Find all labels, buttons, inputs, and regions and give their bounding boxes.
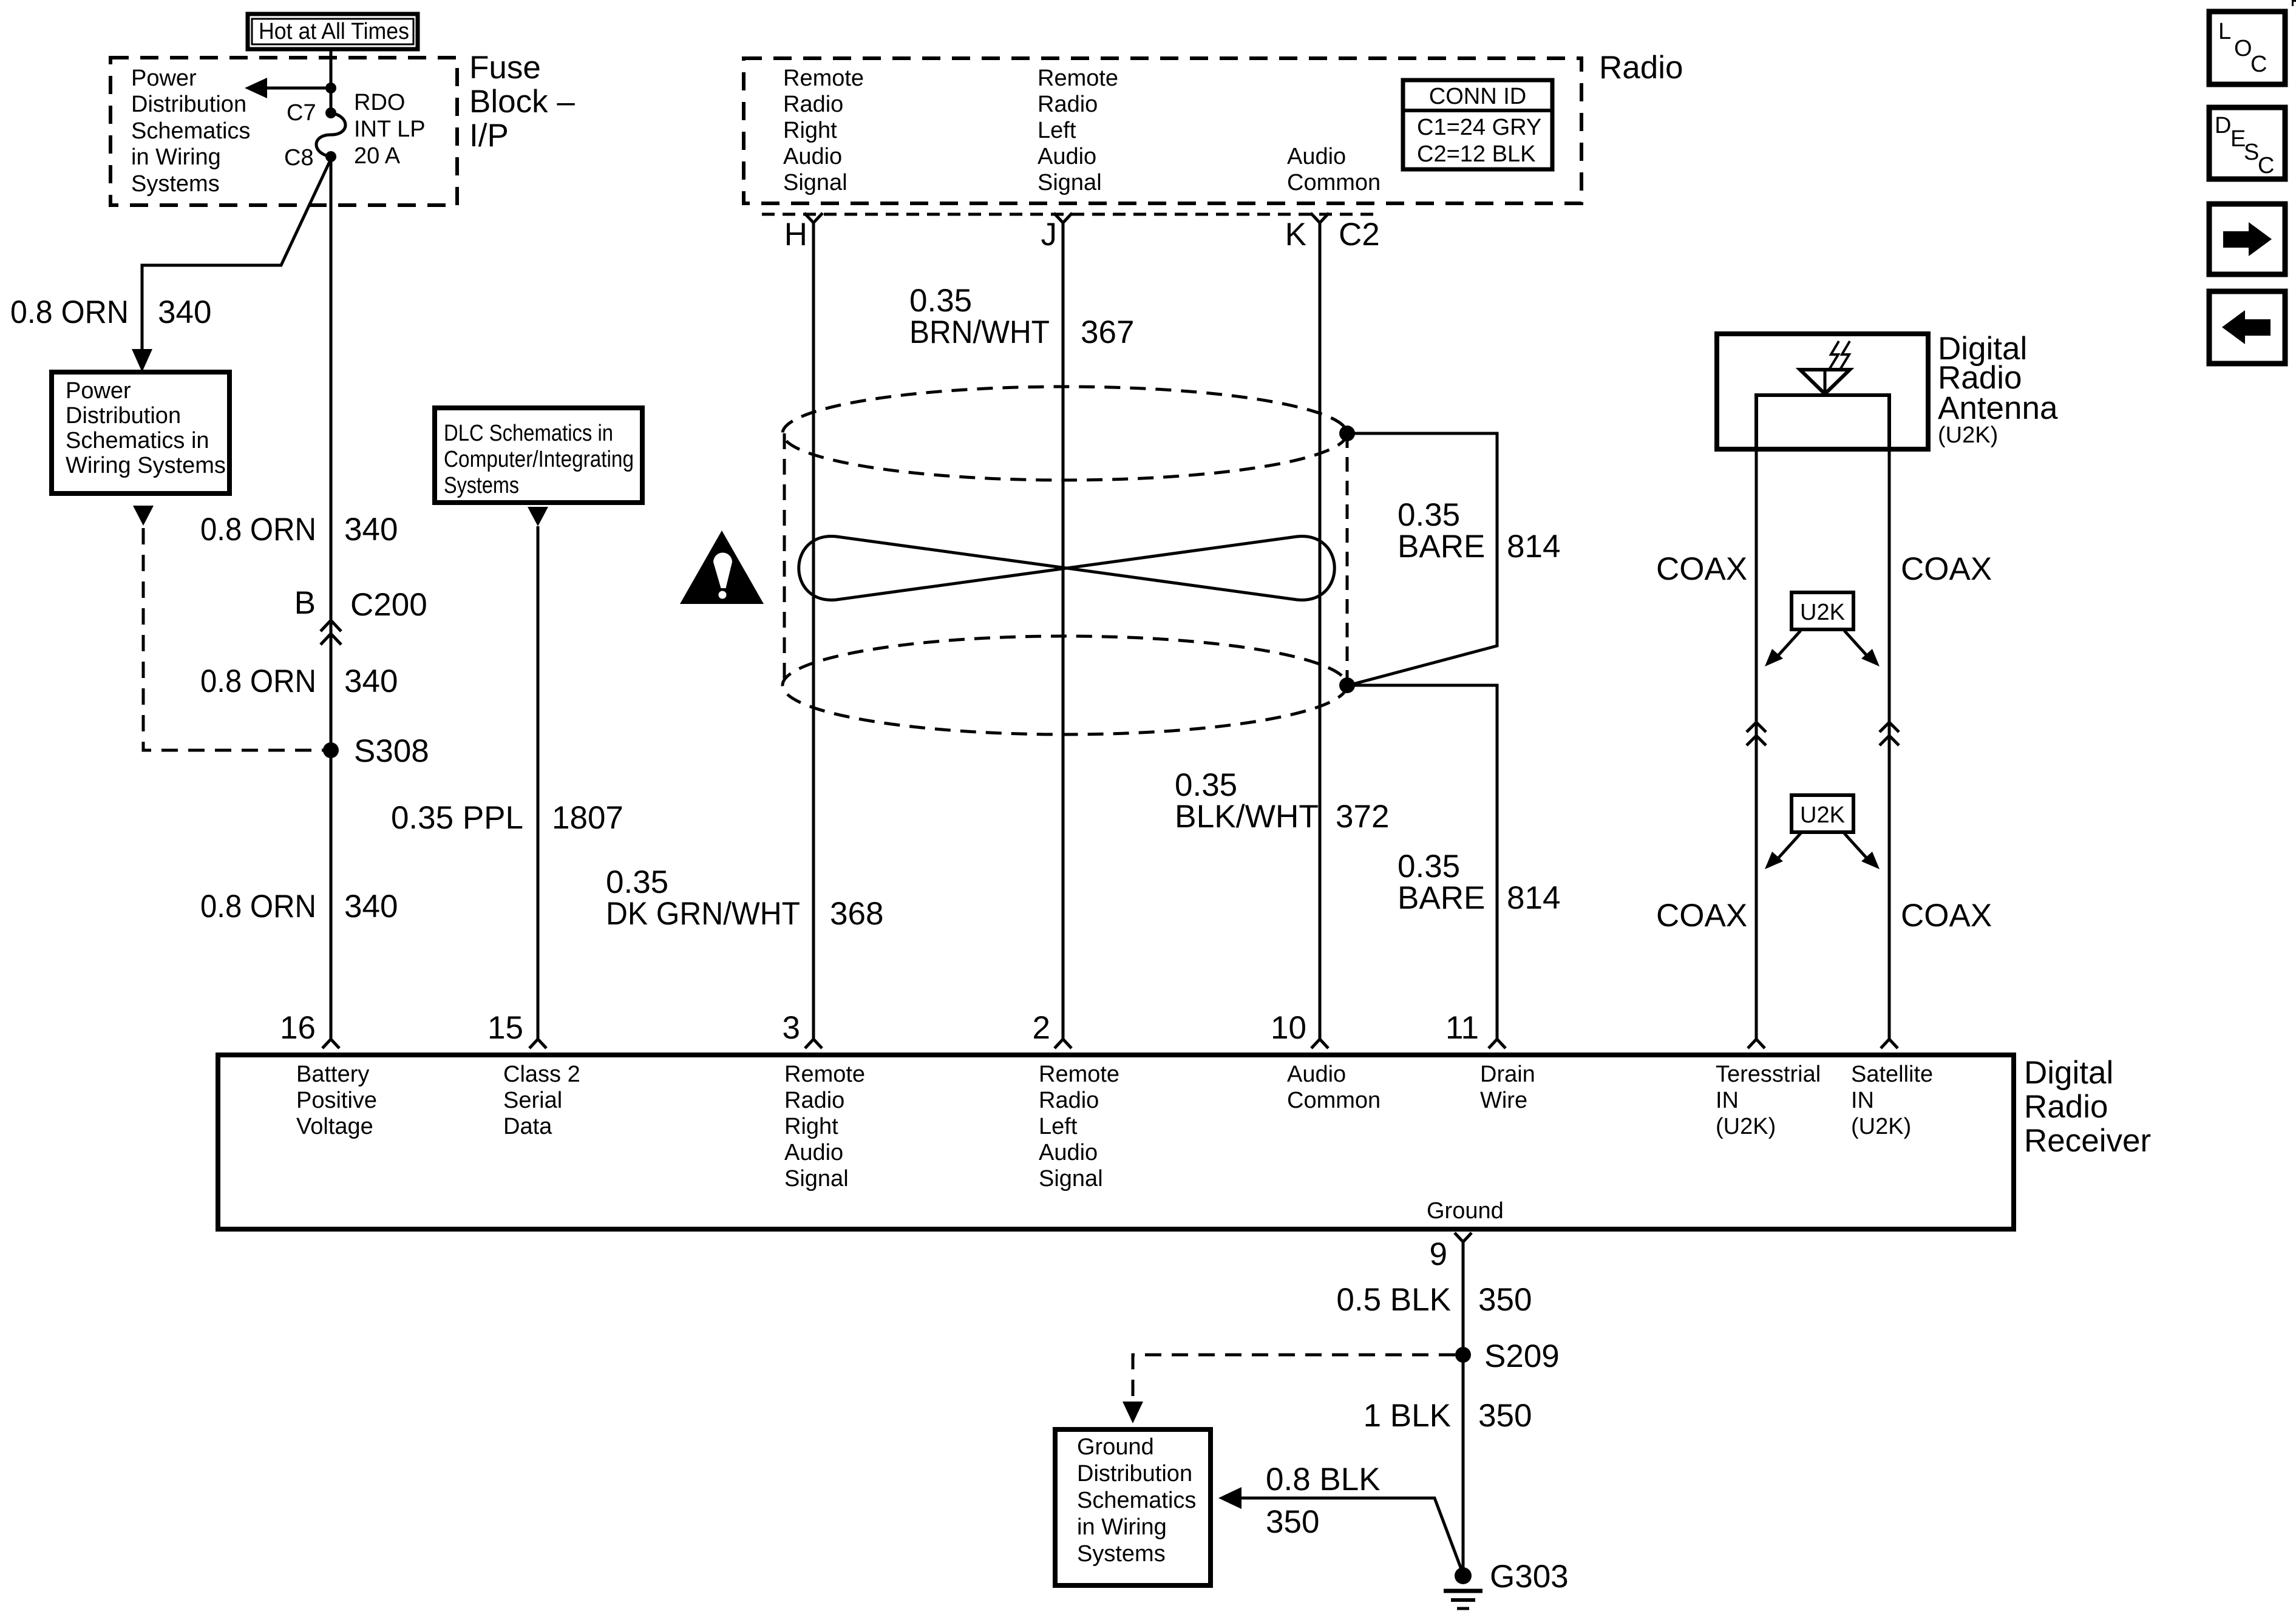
svg-text:Ground: Ground [1427,1198,1504,1224]
svg-text:Radio: Radio [784,1088,844,1113]
pin terrestrial [1748,1039,1765,1048]
svg-text:0.35: 0.35 [1398,849,1460,884]
wire label 0.8 BLK 350 [1266,1462,1381,1540]
svg-text:350: 350 [1478,1282,1532,1318]
svg-text:K: K [1285,217,1306,253]
svg-text:15: 15 [487,1010,523,1046]
twisted pair symbol [799,537,1335,600]
wire label 0.35 PPL 1807 [391,800,623,836]
wire label 0.35 BRN/WHT 367 [909,283,1134,350]
svg-text:814: 814 [1507,880,1560,916]
svg-text:Systems: Systems [444,473,519,498]
svg-text:S: S [2244,140,2259,165]
antenna inner housing [1756,395,1889,449]
svg-text:9: 9 [1430,1236,1447,1272]
svg-text:Teresstrial: Teresstrial [1716,1062,1821,1087]
svg-text:340: 340 [158,294,211,330]
wire label 0.35 BARE 814 (upper) [1398,497,1560,564]
svg-text:Signal: Signal [784,1166,849,1192]
antenna symbol [1800,341,1850,395]
svg-text:S308: S308 [354,733,429,769]
svg-text:Distribution: Distribution [1077,1461,1192,1486]
box: Ground Distribution Schematics in Wiring Systems [1055,1429,1211,1585]
label box: Hot at All Times [248,14,418,49]
svg-text:Satellite: Satellite [1851,1062,1933,1087]
receiver pin text: audio common [1287,1062,1381,1113]
coax break chevrons right [1880,722,1899,745]
svg-text:Remote: Remote [783,66,864,91]
wire label 0.35 BLK/WHT 372 [1175,767,1389,835]
svg-text:1 BLK: 1 BLK [1364,1398,1451,1434]
svg-text:Remote: Remote [784,1062,865,1087]
svg-text:D: D [2215,113,2231,138]
svg-text:U2K: U2K [1800,600,1845,625]
svg-text:Class 2: Class 2 [503,1062,580,1087]
svg-text:11: 11 [1445,1010,1479,1046]
svg-text:Antenna: Antenna [1938,390,2058,426]
radio pin text: remote radio right audio signal [783,66,864,195]
svg-text:1807: 1807 [552,800,623,836]
svg-text:Common: Common [1287,1088,1381,1113]
svg-text:INT LP: INT LP [354,117,426,142]
svg-text:Drain: Drain [1480,1062,1535,1087]
warning triangle [680,531,764,604]
svg-text:G303: G303 [1490,1559,1569,1595]
svg-text:Digital: Digital [2024,1055,2113,1091]
shield right dashed side [1346,433,1349,685]
fuse block dashed box [110,58,457,205]
svg-text:Left: Left [1039,1114,1078,1139]
svg-text:in Wiring: in Wiring [1077,1514,1167,1540]
nav box LOC [2209,12,2285,84]
U2K option box upper [1765,592,1880,666]
wire label 0.8 ORN 340 (top left) [10,294,211,330]
svg-text:J: J [1041,217,1058,253]
nav box arrow right [2209,204,2285,274]
svg-text:Radio: Radio [783,92,843,117]
svg-text:Battery: Battery [296,1062,369,1087]
box: Digital Radio Receiver [218,1055,2014,1229]
svg-text:340: 340 [344,889,398,924]
svg-text:0.35: 0.35 [1175,767,1237,803]
svg-text:350: 350 [1478,1398,1532,1434]
svg-text:Voltage: Voltage [296,1114,373,1139]
svg-text:C2: C2 [1339,217,1380,253]
receiver pin text: remote radio right audio signal [784,1062,865,1192]
wire H to pin 3 [812,223,815,1039]
svg-text:Signal: Signal [783,170,847,195]
pin 11 [1445,1010,1506,1048]
ground G303 [1444,1559,1569,1609]
arrow below power distribution box [133,506,154,526]
svg-text:Right: Right [784,1114,838,1139]
svg-text:in Wiring: in Wiring [131,144,221,170]
svg-text:0.35 PPL: 0.35 PPL [391,800,523,836]
svg-text:372: 372 [1336,799,1389,835]
label: Digital Radio Antenna (U2K) [1938,331,2058,448]
receiver pin text: remote radio left audio signal [1039,1062,1119,1192]
pin 9 [1430,1233,1472,1272]
shield top dashed ellipse [783,387,1347,480]
label: Digital Radio Receiver [2024,1055,2151,1159]
svg-text:B: B [294,585,316,621]
arrow below DLC box [528,507,548,526]
wire label 0.8 ORN 340 (upper) [200,512,398,547]
svg-text:C200: C200 [350,587,427,623]
svg-text:0.8 ORN: 0.8 ORN [10,294,129,330]
svg-text:0.35: 0.35 [606,864,668,900]
svg-text:0.35: 0.35 [909,283,972,319]
U2K option box lower [1765,795,1880,869]
svg-text:Fuse: Fuse [469,50,541,86]
svg-text:Signal: Signal [1038,170,1102,195]
svg-text:0.35: 0.35 [1398,497,1460,533]
wire: class 2 serial data to pin 15 [537,526,540,1039]
receiver pin text: terrestrial in [1716,1062,1821,1139]
svg-text:Remote: Remote [1039,1062,1119,1087]
svg-text:368: 368 [830,896,883,932]
wire 0.8 BLK 350 to G303 [1218,1487,1463,1574]
shield bottom dashed ellipse [783,636,1347,734]
svg-text:Common: Common [1287,170,1381,195]
wire label 1 BLK 350 [1364,1398,1532,1434]
svg-text:DLC Schematics in: DLC Schematics in [444,421,613,446]
svg-text:Distribution: Distribution [131,92,246,117]
page edge mark [2292,0,2296,6]
svg-text:BRN/WHT: BRN/WHT [909,314,1050,350]
svg-text:(U2K): (U2K) [1938,422,1998,448]
pin H [784,213,823,253]
drain wire upper loop [1347,433,1497,685]
wire from Hot at All Times down [330,49,333,112]
receiver pin text: drain wire [1480,1062,1535,1113]
svg-text:0.8 ORN: 0.8 ORN [200,889,316,924]
svg-text:CONN ID: CONN ID [1429,84,1526,109]
svg-text:Distribution: Distribution [66,403,181,429]
svg-text:COAX: COAX [1901,898,1992,934]
coax break chevrons left [1747,722,1766,745]
svg-text:C2=12 BLK: C2=12 BLK [1417,141,1535,167]
svg-text:Power: Power [66,378,131,404]
svg-text:Audio: Audio [784,1140,843,1165]
svg-text:Block –: Block – [469,84,575,120]
pin 15 [487,1010,546,1048]
radio pin text: audio common [1287,144,1381,195]
CONN ID table [1403,80,1552,169]
svg-text:I/P: I/P [469,118,509,154]
svg-text:BARE: BARE [1398,880,1485,916]
svg-text:Audio: Audio [1287,144,1346,169]
svg-text:Wire: Wire [1480,1088,1527,1113]
wire K to pin 10 [1319,223,1322,1039]
svg-text:C1=24 GRY: C1=24 GRY [1417,115,1541,140]
main wire from fuse C8 to pin 16 [330,157,333,1039]
svg-text:H: H [784,217,807,253]
svg-text:Radio: Radio [1599,50,1683,86]
wire label 0.35 BARE 814 (lower) [1398,849,1560,916]
svg-text:IN: IN [1851,1088,1874,1113]
svg-text:Power: Power [131,66,197,91]
svg-text:BLK/WHT: BLK/WHT [1175,799,1319,835]
wire label 0.35 DK GRN/WHT 368 [606,864,883,932]
svg-text:0.8 ORN: 0.8 ORN [200,512,316,547]
svg-text:U2K: U2K [1800,802,1845,828]
svg-text:RDO: RDO [354,90,405,115]
svg-text:367: 367 [1081,314,1134,350]
svg-text:3: 3 [783,1010,800,1046]
svg-text:IN: IN [1716,1088,1739,1113]
coax wire terrestrial [1755,449,1758,1039]
shield bottom tap node [1339,677,1355,693]
svg-text:20 A: 20 A [354,143,401,169]
junction node [325,83,336,93]
wire J to pin 2 [1062,223,1065,1039]
fuse block note text [131,66,250,197]
svg-text:340: 340 [344,663,398,699]
svg-text:C8: C8 [284,145,314,171]
pin satellite [1881,1039,1898,1048]
svg-text:Remote: Remote [1038,66,1118,91]
pin 16 [280,1010,339,1048]
nav box DESC [2209,107,2285,179]
svg-text:(U2K): (U2K) [1851,1114,1911,1139]
svg-text:COAX: COAX [1656,551,1747,587]
svg-text:Audio: Audio [783,144,842,169]
svg-text:Radio: Radio [1039,1088,1099,1113]
radio pin text: remote radio left audio signal [1038,66,1118,195]
wire label 0.8 ORN 340 (middle) [200,663,398,699]
svg-text:Schematics in: Schematics in [66,428,209,453]
svg-text:(U2K): (U2K) [1716,1114,1776,1139]
svg-text:350: 350 [1266,1504,1319,1540]
receiver pin text: satellite in [1851,1062,1933,1139]
svg-text:COAX: COAX [1656,898,1747,934]
svg-text:Computer/Integrating: Computer/Integrating [444,447,634,472]
svg-text:Signal: Signal [1039,1166,1103,1192]
shield left dashed side [783,433,786,685]
shield top tap node [1339,425,1355,441]
svg-text:Audio: Audio [1287,1062,1346,1087]
svg-text:0.8 BLK: 0.8 BLK [1266,1462,1381,1497]
svg-text:0.5 BLK: 0.5 BLK [1336,1282,1451,1318]
nav box arrow left [2209,291,2285,364]
pin 3 [783,1010,822,1048]
svg-text:10: 10 [1271,1010,1306,1046]
svg-text:C7: C7 [287,100,316,126]
box: Power Distribution Schematics in Wiring Systems [52,372,229,493]
svg-text:C: C [2258,153,2274,178]
svg-text:BARE: BARE [1398,529,1485,564]
svg-text:Schematics: Schematics [1077,1488,1196,1513]
svg-text:Right: Right [783,118,837,143]
fuse RDO INT LP 20 A [316,107,345,162]
arrow to Power Distribution text [245,78,331,98]
svg-text:S209: S209 [1484,1338,1560,1374]
dashed wire from S209 to ground distribution [1123,1355,1455,1423]
receiver pin text: battery positive voltage [296,1062,377,1139]
svg-text:Wiring Systems: Wiring Systems [66,453,226,478]
svg-text:Receiver: Receiver [2024,1123,2151,1159]
svg-text:Systems: Systems [1077,1541,1166,1567]
receiver pin text: class 2 serial data [503,1062,580,1139]
svg-text:L: L [2218,19,2231,44]
box: Digital Radio Antenna outer [1717,334,1928,449]
svg-text:340: 340 [344,512,398,547]
wire: branch from C8 to left arrow [132,159,331,372]
pin J [1041,213,1073,253]
dashed wire to S308 [143,528,328,750]
svg-text:Positive: Positive [296,1088,377,1113]
svg-text:C: C [2250,52,2267,77]
svg-text:Radio: Radio [2024,1089,2108,1125]
connector C200 pin B [294,585,427,645]
svg-text:Radio: Radio [1038,92,1098,117]
svg-text:O: O [2234,36,2252,61]
svg-text:Left: Left [1038,118,1076,143]
svg-text:Audio: Audio [1039,1140,1098,1165]
svg-text:Systems: Systems [131,171,220,197]
svg-text:Schematics: Schematics [131,118,250,144]
wire label 0.8 ORN 340 (lower) [200,889,398,924]
svg-text:0.8 ORN: 0.8 ORN [200,663,316,699]
svg-text:Ground: Ground [1077,1434,1154,1460]
fuse value label [354,90,426,169]
pin 2 [1033,1010,1072,1048]
pin K [1285,213,1329,253]
svg-text:16: 16 [280,1010,316,1046]
connector C2 dashed line [762,213,1378,216]
svg-text:Data: Data [503,1114,552,1139]
splice node S308 [323,733,429,769]
svg-text:COAX: COAX [1901,551,1992,587]
pin 10 [1271,1010,1328,1048]
box: DLC Schematics in Computer/Integrating Systems [435,408,642,503]
ground wire pin 9 to G303 [1462,1242,1465,1576]
svg-text:Serial: Serial [503,1088,562,1113]
svg-text:DK GRN/WHT: DK GRN/WHT [606,896,800,932]
drain wire lower run [1347,685,1497,1039]
svg-text:Audio: Audio [1038,144,1096,169]
radio dashed box [744,58,1581,203]
svg-text:Hot at All Times: Hot at All Times [259,19,409,44]
svg-text:814: 814 [1507,529,1560,564]
splice node S209 [1455,1338,1560,1374]
wire label 0.5 BLK 350 [1336,1282,1532,1318]
svg-text:2: 2 [1033,1010,1050,1046]
coax wire satellite [1888,449,1891,1039]
label: Fuse Block - I/P [469,50,575,154]
